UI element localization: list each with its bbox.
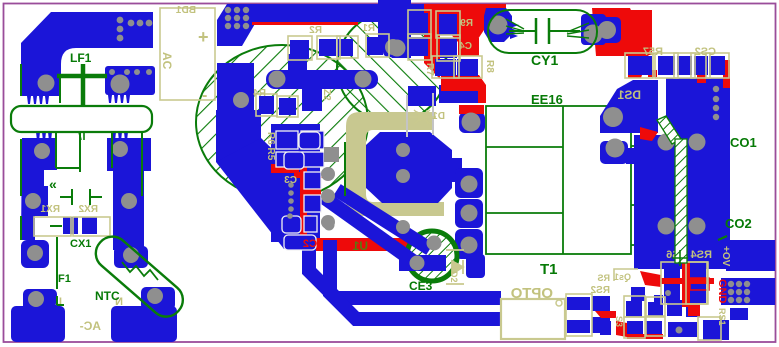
svg-text:CE3: CE3 bbox=[409, 279, 433, 293]
svg-text:«: « bbox=[49, 176, 57, 192]
wire C2 vertical to lower bus inner bbox=[309, 238, 501, 298]
resistor R1 R2 top pads bbox=[290, 40, 309, 59]
wire red stubs SMD row right bbox=[640, 45, 652, 55]
copper red pour right of CY1 bbox=[592, 8, 637, 56]
opto-isolator OPTO body bbox=[501, 299, 565, 339]
copper output pour mid bbox=[634, 135, 730, 269]
wire U1 to CE3 diagonal lower bbox=[322, 196, 413, 261]
bridge rectifier BD1 outline bbox=[160, 8, 215, 100]
svg-text:NTC: NTC bbox=[95, 289, 120, 303]
copper DS1 pour bbox=[600, 80, 658, 133]
svg-text:RS1: RS1 bbox=[717, 308, 727, 326]
wire C3 vertical to lower bus outer bbox=[330, 240, 501, 319]
pad holes R1 R2 bar bbox=[269, 71, 286, 88]
resistor RS2 outline bbox=[566, 294, 592, 336]
resistor R8 outlines bbox=[432, 56, 459, 78]
resistor R9 C4 pads bbox=[411, 13, 428, 35]
wire right leg comb bbox=[112, 132, 128, 141]
pads SMD row top right bbox=[628, 56, 652, 75]
thermistor NTC zigzag bbox=[122, 262, 158, 280]
via 3x3 grid top bus bbox=[225, 7, 231, 13]
copper output pour V+ bbox=[716, 240, 775, 271]
via dots output column bbox=[713, 86, 719, 92]
pads opto output side bbox=[567, 297, 590, 310]
pad CY1 right bbox=[581, 14, 606, 45]
pads right edge small bbox=[730, 308, 748, 320]
pad hole top right block bbox=[389, 40, 406, 57]
svg-text:R2: R2 bbox=[309, 25, 322, 36]
copper AC- corner pour bbox=[11, 306, 65, 342]
wire silk combs bbox=[79, 132, 84, 140]
svg-text:-: - bbox=[202, 87, 207, 104]
copper top red pour near C4 bbox=[424, 4, 506, 79]
copper N corner pour bbox=[111, 306, 177, 342]
svg-text:CY1: CY1 bbox=[531, 52, 558, 68]
svg-text:D1: D1 bbox=[432, 111, 445, 122]
copper LF1 right pad block bbox=[105, 66, 155, 95]
pads bottom row bbox=[627, 321, 643, 337]
wire red diagonal RS2 bbox=[595, 311, 616, 318]
transformer T1 outline bbox=[486, 106, 639, 254]
svg-text:C3: C3 bbox=[284, 175, 297, 186]
svg-text:R9: R9 bbox=[460, 18, 473, 29]
wire CE3 output bar bbox=[399, 255, 446, 271]
svg-text:RS: RS bbox=[597, 273, 610, 283]
heatsink pour (khaki ring) bbox=[346, 112, 444, 216]
wire LF1 right pad comb bbox=[108, 95, 130, 103]
svg-text:S3: S3 bbox=[614, 316, 624, 327]
pad DS1 cathode bbox=[600, 141, 628, 164]
svg-text:R7: R7 bbox=[424, 63, 435, 76]
pad NTC bottom bbox=[141, 287, 175, 310]
pads transformer primary column bbox=[459, 112, 485, 133]
svg-text:D2: D2 bbox=[449, 271, 459, 283]
svg-text:GND: GND bbox=[716, 279, 728, 304]
transistor Qs1 bracket bbox=[614, 269, 638, 281]
svg-text:RX1: RX1 bbox=[40, 204, 60, 215]
svg-text:C4: C4 bbox=[459, 41, 472, 52]
wire bar R1 R2 row2 bbox=[266, 70, 378, 89]
fuse F1 silk bbox=[57, 237, 64, 305]
pad holes CO1 bbox=[658, 134, 675, 151]
svg-text:R8: R8 bbox=[484, 60, 495, 73]
svg-text:Z2: Z2 bbox=[321, 89, 332, 101]
pad D2 anode round bbox=[460, 232, 482, 254]
resistor R6 R5 pads bbox=[276, 131, 298, 149]
wire red under bottom pads bbox=[627, 334, 663, 339]
inductor LF1 core bars bbox=[57, 64, 107, 106]
svg-text:R6 R5: R6 R5 bbox=[265, 132, 276, 161]
pad holes CO2 bbox=[658, 218, 675, 235]
pad gray square U1 bbox=[324, 147, 339, 162]
svg-text:R1: R1 bbox=[362, 23, 375, 34]
wire red triangle at DS1 bbox=[640, 127, 658, 141]
pads GND small left bbox=[600, 321, 611, 335]
pad NTC top bbox=[114, 246, 148, 268]
svg-text:R4: R4 bbox=[253, 88, 266, 99]
svg-text:CO2: CO2 bbox=[725, 216, 752, 231]
svg-text:T1: T1 bbox=[540, 261, 558, 278]
wire red top bus trace bbox=[252, 22, 358, 25]
pads IC U1 left column bbox=[299, 132, 320, 149]
copper left leg upper bbox=[21, 138, 57, 240]
resistor R4 outlines bbox=[256, 94, 277, 116]
pad DS1 anode bbox=[600, 17, 621, 43]
wire red trace C3 vertical bbox=[300, 166, 307, 242]
resistor R4 pads bbox=[259, 96, 274, 114]
pad holes right legs bbox=[112, 141, 128, 157]
capacitor CE3 footprint circle bbox=[407, 231, 457, 281]
svg-text:RS2: RS2 bbox=[590, 285, 610, 296]
svg-text:+OV: +OV bbox=[720, 246, 731, 267]
via grid GND bbox=[728, 281, 734, 287]
diode D1 pin brackets bbox=[407, 93, 433, 137]
copper diagonal pour to C2 bbox=[216, 110, 261, 162]
copper top-right block bbox=[378, 4, 411, 58]
copper output pour top bbox=[666, 78, 730, 138]
copper bottom-right pour bbox=[703, 320, 729, 340]
pad holes CY1 bbox=[489, 16, 508, 35]
pad holes mid blocks bbox=[233, 92, 249, 108]
via dots arch bbox=[117, 17, 124, 24]
pad via right of R1 bbox=[383, 38, 402, 57]
copper GND pad bbox=[721, 278, 775, 305]
wire red vertical right bbox=[682, 285, 688, 307]
wire LF1 left pad comb bbox=[27, 96, 49, 104]
via dot qs1 bbox=[665, 290, 671, 296]
inductor LF1 body outline bbox=[11, 106, 152, 132]
diode D1 footprint circle (hatched) bbox=[337, 12, 447, 122]
resistor R1 R2 outlines bbox=[288, 36, 312, 60]
resistor R9 C4 outlines bbox=[408, 10, 431, 38]
svg-text:U1: U1 bbox=[352, 239, 368, 253]
svg-text:DS1: DS1 bbox=[617, 88, 641, 102]
svg-text:LF1: LF1 bbox=[70, 51, 92, 65]
pad holes center blob bbox=[396, 143, 410, 157]
svg-text:AC-: AC- bbox=[80, 319, 101, 333]
capacitor C2 pad bbox=[284, 235, 316, 250]
pad holes transformer primary bbox=[462, 113, 481, 132]
wire red trace at C2 bbox=[302, 222, 307, 240]
wire silk vertical at U1 bbox=[344, 142, 346, 196]
pads RS4 RS6 cluster bbox=[664, 262, 680, 278]
pad fuse F1 top bbox=[21, 240, 49, 268]
diode D2 symbol bbox=[446, 250, 464, 284]
resistor RS footprint red outline bbox=[690, 278, 709, 290]
wire silk verticals left block bbox=[21, 64, 142, 196]
diode D1 symbol bbox=[409, 110, 436, 124]
pad hole D2 bbox=[466, 238, 476, 248]
via dots C3 column bbox=[288, 182, 294, 188]
svg-text:CO1: CO1 bbox=[730, 135, 757, 150]
pad holes left legs bbox=[34, 143, 50, 159]
via dot below blob bbox=[396, 220, 410, 234]
svg-text:AC: AC bbox=[160, 52, 174, 70]
via holes U1 right column bbox=[321, 167, 335, 181]
wire red U1 band bbox=[307, 238, 409, 251]
wire red bottom cluster cross bbox=[661, 278, 714, 284]
svg-text:CS2: CS2 bbox=[695, 46, 716, 58]
copper mid-left block bbox=[217, 63, 254, 112]
capacitor CX1 silk bbox=[21, 189, 102, 240]
thermistor NTC outline bbox=[89, 230, 189, 323]
svg-text:RS4 RS6: RS4 RS6 bbox=[666, 249, 712, 261]
svg-text:Qs1: Qs1 bbox=[614, 272, 631, 282]
pad capacitor CX1 right bbox=[82, 217, 97, 234]
resistor RX2 outline bbox=[34, 217, 71, 236]
svg-text:CX1: CX1 bbox=[70, 238, 91, 250]
pad holes CE3 bbox=[427, 236, 442, 251]
svg-text:C2: C2 bbox=[303, 238, 317, 250]
copper right leg upper bbox=[113, 170, 144, 250]
transformer footprint circle (hatched) bbox=[196, 45, 368, 199]
via dots LF1 right bbox=[109, 69, 115, 75]
wire silk tick CO2 bbox=[718, 236, 727, 240]
resistor RX1 outline bbox=[73, 217, 110, 236]
svg-text:BD1: BD1 bbox=[176, 5, 196, 16]
svg-text:+: + bbox=[198, 27, 209, 47]
pad holes DS1 bbox=[603, 107, 623, 127]
transistor Qs1 pads bbox=[631, 287, 645, 301]
footprint boxes bottom right bbox=[624, 296, 645, 317]
svg-text:EE16: EE16 bbox=[531, 92, 563, 107]
wire red stubs near D1 bbox=[441, 75, 486, 103]
copper top bus bbox=[217, 4, 424, 46]
capacitor C3 pads bbox=[304, 172, 321, 189]
svg-text:RX2: RX2 bbox=[78, 204, 98, 215]
resistor R8 pads bbox=[435, 59, 456, 76]
capacitor CY1 symbol bbox=[536, 18, 549, 44]
pad hole top right corner bbox=[598, 21, 616, 39]
copper pour AC input arch bbox=[21, 12, 153, 96]
svg-text:R57: R57 bbox=[643, 46, 663, 58]
wire U1 to CE3 diagonal upper bbox=[337, 190, 430, 249]
svg-text:F1: F1 bbox=[58, 273, 71, 285]
resistor RS2 RS3 pads row bbox=[626, 301, 642, 317]
copper red pour top right corner bbox=[604, 10, 652, 78]
pad capacitor CX1 left bbox=[63, 217, 78, 234]
copper center blob under ring bbox=[366, 132, 452, 203]
wire left leg comb bbox=[36, 132, 52, 141]
copper D1 anode block bbox=[408, 86, 436, 106]
svg-text:OPTO: OPTO bbox=[510, 285, 553, 302]
pads outlines top right row bbox=[625, 53, 653, 78]
slot hatched band bbox=[657, 116, 688, 266]
pad holes LF1 bbox=[38, 75, 55, 92]
pad CY1 left octagon bbox=[510, 22, 519, 39]
capacitor CY1 outline bbox=[488, 10, 597, 53]
pad fuse F1 bottom bbox=[23, 289, 57, 311]
